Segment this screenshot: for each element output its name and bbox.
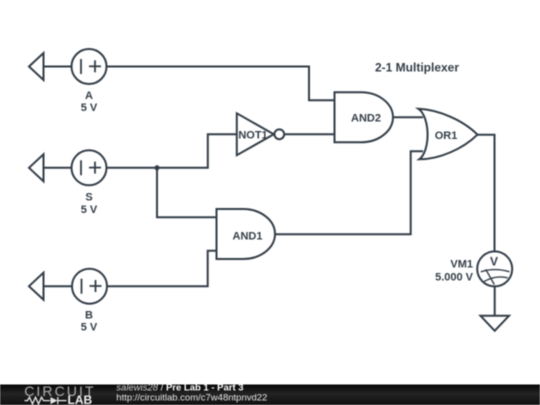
wire NOT1 out to AND2 input2	[284, 133, 334, 135]
inverter NOT1	[237, 113, 284, 155]
svg-text:http://circuitlab.com/c7w48ntp: http://circuitlab.com/c7w48ntpnvd22	[116, 393, 267, 404]
wire B to AND1 input2	[108, 251, 217, 286]
flag node B	[29, 273, 44, 300]
footer bar	[0, 385, 540, 405]
logo resistor-diode	[25, 397, 67, 404]
or gate OR1	[418, 109, 477, 160]
svg-text:5 V: 5 V	[81, 204, 98, 216]
svg-text:LAB: LAB	[68, 393, 93, 405]
svg-text:VM1: VM1	[450, 259, 473, 271]
svg-text:S: S	[85, 192, 92, 204]
wire flagB to VB	[44, 285, 73, 287]
flag node S	[29, 154, 44, 181]
svg-text:AND1: AND1	[233, 231, 263, 243]
wire AND2 out to OR1 input1	[393, 116, 423, 118]
wire AND1 out to OR1 input2	[275, 151, 423, 234]
voltage source B	[72, 269, 107, 304]
svg-text:5.000 V: 5.000 V	[435, 271, 474, 283]
junction node S	[155, 165, 160, 170]
svg-text:NOT1: NOT1	[238, 130, 267, 142]
svg-text:OR1: OR1	[435, 130, 458, 142]
wire flagA to VA	[44, 66, 72, 68]
wire flagS to VS	[44, 167, 72, 169]
svg-text:5 V: 5 V	[81, 102, 98, 114]
voltage source S	[72, 150, 107, 185]
ground	[481, 316, 510, 331]
voltage source A	[72, 49, 107, 84]
wire OR1 out to VM1	[478, 135, 495, 252]
and gate AND1	[217, 209, 276, 259]
flag node A	[29, 53, 44, 80]
voltmeter VM1	[477, 251, 512, 286]
wire S junction to AND1 input1	[157, 168, 217, 217]
wire A to AND2 input1	[107, 67, 335, 101]
svg-text:5 V: 5 V	[81, 322, 98, 334]
svg-text:A: A	[85, 90, 93, 102]
svg-text:AND2: AND2	[351, 112, 381, 124]
wire VM1 to ground	[494, 286, 496, 315]
wire S to NOT1 input	[107, 134, 237, 168]
svg-text:2-1 Multiplexer: 2-1 Multiplexer	[375, 60, 459, 74]
svg-text:V: V	[490, 255, 498, 269]
svg-text:B: B	[85, 310, 93, 322]
and gate AND2	[335, 92, 393, 142]
